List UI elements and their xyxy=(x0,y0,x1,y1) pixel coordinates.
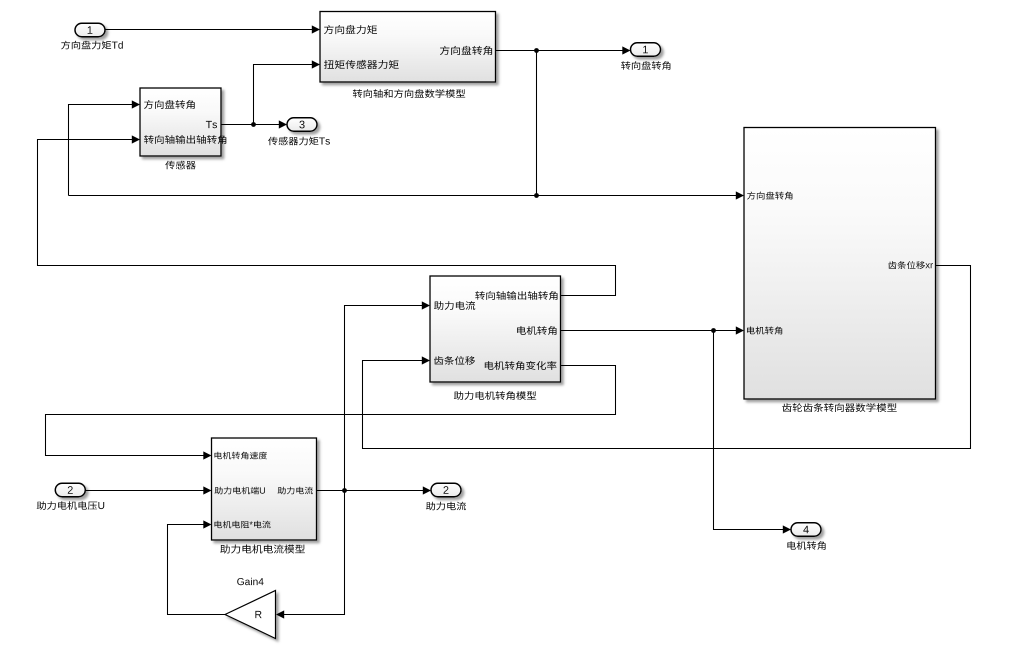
B1 port label 方向盘力矩 xyxy=(324,25,377,34)
B2 port label 转向轴输出轴转角 xyxy=(144,135,226,144)
B1 port label 方向盘转角 xyxy=(440,46,492,55)
subsystem block B5 助力电机电流模型 xyxy=(212,438,317,540)
wire B5 output 助力电流 to outport2 xyxy=(317,490,431,492)
wire 助力电流 branch down to Gain4 xyxy=(277,491,345,615)
arrowhead at outport1 xyxy=(622,46,630,54)
inport2 digit 2 xyxy=(68,486,73,494)
wire inport1 to B1 方向盘力矩 xyxy=(105,29,319,31)
gain block Gain4 xyxy=(225,591,276,639)
subsystem block B3 助力电机转角模型 xyxy=(430,276,561,382)
wire B4 齿条位移xr to B3 齿条位移 xyxy=(363,266,971,449)
B3 port label 电机转角变化率 xyxy=(485,361,557,370)
inport 1 oval xyxy=(75,23,105,37)
arrowhead at B4 input 电机转角 xyxy=(736,326,744,334)
B5 port label 助力电流 xyxy=(278,487,313,495)
outport 2 oval 助力电流 xyxy=(431,483,461,497)
outport 1 oval 转向盘转角 xyxy=(631,43,661,57)
arrowhead at Gain4 input xyxy=(276,610,284,618)
B4 port label 电机转角 xyxy=(747,327,782,335)
subsystem block B4 齿轮齿条转向器数学模型 xyxy=(744,128,936,400)
wire Gain4 output to B5 电机电阻*电流 xyxy=(168,525,226,615)
arrowhead at B3 input 齿条位移 xyxy=(422,356,430,364)
wire B2 output Ts to outport3 xyxy=(221,124,286,126)
outport3 label 传感器力矩Ts xyxy=(268,137,330,146)
arrowhead at B5 input 电机电阻*电流 xyxy=(203,520,211,528)
wire B3 转向轴输出轴转角 to B2 xyxy=(38,140,616,296)
arrowhead at B4 input 方向盘转角 xyxy=(736,191,744,199)
outport 3 oval 传感器力矩Ts xyxy=(287,118,317,132)
B2 port label Ts xyxy=(206,121,217,128)
B2 port label 方向盘转角 xyxy=(144,100,195,109)
junction on 电机转角 net xyxy=(711,328,716,333)
wire 助力电流 branch up to B3 xyxy=(345,306,430,491)
arrowhead at outport2 xyxy=(423,486,431,494)
block title 助力电机电流模型 xyxy=(220,545,305,554)
arrowhead at B5 input 助力电机端U xyxy=(203,486,211,494)
wire B3 电机转角变化率 to B5 电机转角速度 xyxy=(46,366,616,456)
arrowhead at B5 input 电机转角速度 xyxy=(203,451,211,459)
B3 port label 转向轴输出轴转角 xyxy=(475,291,557,300)
B3 port label 电机转角 xyxy=(517,326,556,335)
wire 电机转角 branch to outport4 xyxy=(714,331,791,530)
subsystem block B1 转向轴和方向盘数学模型 xyxy=(320,12,496,83)
wire 方向盘转角 branch to B2 xyxy=(69,105,140,196)
wire Ts branch up to B1 扭矩传感器力矩 xyxy=(254,65,320,125)
arrowhead at B2 input 转向轴输出轴转角 xyxy=(132,135,140,143)
B5 port label 电机电阻*电流 xyxy=(215,521,271,529)
outport 4 oval 电机转角 xyxy=(791,523,821,537)
inport 2 oval 助力电机电压U xyxy=(55,483,85,497)
junction on Ts net xyxy=(251,122,256,127)
arrowhead at B1 input 扭矩传感器力矩 xyxy=(312,60,320,68)
junction on B1 output net xyxy=(534,48,539,53)
wire B3 电机转角 to B4 xyxy=(561,330,744,332)
outport3 digit 3 xyxy=(299,121,304,129)
Gain4 value label R xyxy=(255,611,261,618)
B3 port label 齿条位移 xyxy=(434,356,475,365)
block title 助力电机转角模型 xyxy=(454,391,536,400)
outport2 digit 2 xyxy=(444,486,449,494)
junction on 助力电流 net xyxy=(342,488,347,493)
B5 port label 助力电机端U xyxy=(215,487,266,495)
wire branch down from B1 output xyxy=(536,51,538,196)
outport1 digit 1 xyxy=(643,46,648,54)
arrowhead at B2 input 方向盘转角 xyxy=(132,100,140,108)
junction on 方向盘转角 bus xyxy=(534,193,539,198)
inport2 label 助力电机电压U xyxy=(37,501,105,510)
block title 转向轴和方向盘数学模型 xyxy=(353,89,465,98)
inport1 label 方向盘力矩Td xyxy=(61,41,123,50)
wire inport2 to B5 助力电机端U xyxy=(85,490,210,492)
B4 port label 方向盘转角 xyxy=(747,192,792,200)
block title 齿轮齿条转向器数学模型 xyxy=(782,403,896,412)
wire B1 output 方向盘转角 to outport1 xyxy=(496,50,630,52)
subsystem block B2 传感器 xyxy=(140,88,221,156)
arrowhead at outport3 xyxy=(279,120,287,128)
outport2 label 助力电流 xyxy=(426,502,466,511)
B4 port label 齿条位移xr xyxy=(888,261,933,269)
arrowhead at B1 input 方向盘力矩 xyxy=(312,25,320,33)
outport4 label 电机转角 xyxy=(787,541,825,550)
B3 port label 助力电流 xyxy=(434,301,475,310)
block title Gain4 xyxy=(237,578,263,586)
block title 传感器 xyxy=(165,161,195,170)
B5 port label 电机转角速度 xyxy=(215,452,268,460)
inport1 digit 1 xyxy=(88,26,93,34)
arrowhead at outport4 xyxy=(783,525,791,533)
outport4 digit 4 xyxy=(803,526,809,534)
arrowhead at B3 input 助力电流 xyxy=(422,301,430,309)
B1 port label 扭矩传感器力矩 xyxy=(324,60,399,69)
outport1 label 转向盘转角 xyxy=(621,61,670,70)
wire 方向盘转角 bus to B4 xyxy=(69,195,744,197)
